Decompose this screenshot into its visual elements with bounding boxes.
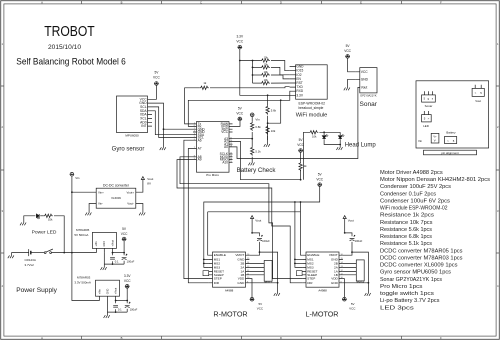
wire 8V down L [344, 219, 346, 233]
wire stack rail top [240, 60, 261, 62]
svg-text:5V: 5V [346, 44, 351, 48]
svg-text:V-: V- [434, 138, 437, 142]
wire R MS1 [204, 258, 209, 260]
LED D3 head lamp [338, 135, 344, 139]
svg-text:Battery: Battery [446, 131, 456, 135]
wire gyro VCC [152, 85, 156, 99]
svg-text:B: B [121, 0, 123, 4]
svg-text:E: E [360, 336, 362, 340]
Vin symbol battery check [250, 113, 255, 117]
wire cap to gnd rail [112, 261, 114, 264]
svg-text:Vout: Vout [255, 218, 261, 222]
svg-text:0.1: 0.1 [115, 259, 119, 263]
wire battery to switch [32, 252, 45, 254]
MOT1 wires [249, 263, 264, 274]
svg-text:MOT1: MOT1 [264, 280, 272, 284]
wire to ground [106, 312, 108, 315]
motor driver L-motor U3 A4988 box [306, 252, 339, 287]
wire L supply return [352, 252, 368, 293]
junction 3.3V line [267, 94, 269, 96]
svg-text:5.6k: 5.6k [271, 109, 277, 113]
sonar pin stubs [356, 72, 360, 80]
svg-text:Vin: Vin [255, 118, 260, 122]
wire lamp drive up [304, 132, 310, 179]
svg-text:Sonar: Sonar [360, 101, 378, 108]
wire Vin- to ground [89, 204, 96, 213]
junction 100uF top 3.3V [126, 300, 128, 302]
wire divider mid [251, 132, 253, 146]
svg-text:Condenser 100uF 25V 2pcs: Condenser 100uF 25V 2pcs [380, 184, 451, 190]
junction stack [252, 60, 254, 62]
svg-text:100uF: 100uF [355, 239, 363, 243]
Pro Micro U1 box [197, 122, 230, 173]
svg-text:3: 3 [2, 209, 4, 213]
wire [126, 309, 128, 312]
ground L motor [365, 293, 371, 296]
wire rail link [300, 202, 302, 212]
svg-text:Self Balancing Robot Model 6: Self Balancing Robot Model 6 [16, 57, 126, 67]
resistor 10k pull 4 [261, 81, 270, 84]
resistor 10k pull 3 [261, 73, 270, 76]
wire battery minus [12, 253, 29, 256]
parts list [380, 170, 490, 311]
sonar VCC symbol [345, 55, 350, 59]
wire EN to L ENABLE [301, 212, 303, 255]
wire 3.3V to ESP [240, 61, 290, 96]
wire L VDD down [343, 279, 345, 298]
svg-text:V+: V+ [433, 135, 437, 139]
svg-text:5: 5 [453, 139, 455, 143]
wire power LED left [24, 216, 36, 223]
svg-text:Vout: Vout [361, 85, 368, 89]
wire pull1 to IO15 [271, 61, 290, 71]
M78AR03 pin labels [98, 288, 117, 295]
svg-text:1: 1 [2, 42, 4, 46]
svg-text:10k: 10k [312, 135, 317, 139]
VCC symbol R VDD [250, 297, 255, 301]
wire sonar Vout to A0 [233, 87, 360, 158]
ground DCDC in [85, 213, 91, 216]
svg-text:A: A [41, 0, 43, 4]
svg-text:C: C [200, 0, 202, 4]
svg-text:10k: 10k [48, 218, 53, 222]
wire 5V rail [113, 252, 125, 254]
resistor 5.1k [251, 146, 254, 155]
svg-text:toggle switch 1pcs: toggle switch 1pcs [380, 291, 434, 297]
svg-text:INT: INT [141, 124, 146, 128]
junction rail crossover [300, 201, 302, 203]
pin alignment caption box [424, 150, 477, 155]
svg-text:5V: 5V [259, 302, 263, 306]
connector MOT1 box [264, 261, 272, 282]
svg-text:Battery Check: Battery Check [237, 167, 277, 174]
svg-text:+Vin: +Vin [95, 241, 98, 247]
svg-text:VCC: VCC [236, 111, 243, 115]
wire A8 to L-motor STEP [180, 157, 302, 279]
wire lamp rail [319, 131, 340, 133]
wire pull4 to RST [271, 82, 290, 84]
wire R VDD down [249, 279, 252, 298]
junction L MS2 [294, 263, 296, 265]
wire [253, 74, 261, 76]
Pro Micro pin stubs left [193, 124, 197, 160]
capacitor 100uF 25V R [257, 235, 263, 241]
wire SCL [152, 107, 193, 138]
wire AR05 Vout [112, 253, 114, 256]
wire EN to R ENABLE [207, 212, 210, 255]
RAW VCC symbol [237, 117, 242, 121]
svg-text:Vin+: Vin+ [98, 190, 104, 194]
junction LED1 [323, 131, 325, 133]
gyro VCC symbol [154, 82, 159, 86]
junction on Rx line [280, 99, 282, 101]
svg-text:2: 2 [2, 125, 4, 129]
wire 10k to ground [267, 136, 269, 144]
resistor 10k pull 1 [261, 59, 270, 62]
svg-text:100uF: 100uF [130, 308, 138, 312]
svg-text:Li-po Battery 3.7V 2pcs: Li-po Battery 3.7V 2pcs [380, 298, 440, 304]
svg-text:Condenser 100uF 6V 2pcs: Condenser 100uF 6V 2pcs [380, 199, 450, 205]
svg-text:DIR: DIR [307, 281, 313, 285]
battery CR123A symbol [29, 249, 31, 256]
svg-text:VCC: VCC [221, 130, 228, 134]
ground M78AR05 [101, 267, 107, 270]
sonar U-GP2Y0A21YK box [360, 68, 377, 93]
svg-text:DC-DC converter: DC-DC converter [103, 183, 130, 187]
svg-text:5V: 5V [238, 106, 243, 110]
M78AR03 pin stubs [100, 296, 116, 300]
wire Rx to ESP RXD [188, 91, 289, 126]
svg-text:VCC: VCC [153, 76, 160, 80]
svg-text:LED 3pcs: LED 3pcs [380, 305, 414, 311]
DCDC converter U-M78AR03 box [96, 280, 120, 296]
svg-text:VCC: VCC [236, 40, 243, 44]
svg-text:VCC: VCC [361, 70, 369, 74]
R-motor U2 pin stubs [209, 255, 250, 283]
junction stack R3 [252, 74, 254, 76]
svg-text:GND: GND [237, 281, 245, 285]
svg-text:DCDC converter M78AR03 1pcs: DCDC converter M78AR03 1pcs [380, 255, 463, 261]
M78AR05 pin labels [95, 240, 114, 247]
svg-text:Power Supply: Power Supply [16, 287, 57, 294]
svg-text:DCDC converter M78AR05 1pcs: DCDC converter M78AR05 1pcs [380, 248, 463, 254]
svg-text:+Vout: +Vout [115, 288, 118, 295]
svg-text:A0: A0 [224, 145, 228, 149]
svg-text:Resistance 5.6k 1pcs: Resistance 5.6k 1pcs [380, 227, 432, 233]
connector J-battery [445, 137, 457, 144]
junction gnd rail 3.3V [115, 311, 117, 313]
wire battery to AR03 Vin [72, 253, 100, 301]
svg-text:+Vout: +Vout [111, 240, 114, 247]
wire power LED to battery rail [54, 216, 64, 253]
resistor 1k pullup [299, 162, 302, 171]
junction L GND [368, 282, 370, 284]
motor driver R-motor U2 A4988 box [213, 252, 246, 287]
svg-text:5: 5 [424, 97, 426, 101]
junction lamp node [300, 179, 302, 181]
VCC symbol L VDD [342, 297, 347, 301]
svg-text:Vout: Vout [348, 218, 354, 222]
wire LED1 bottom [324, 139, 340, 144]
svg-text:>: > [447, 139, 449, 143]
svg-text:MPU6050: MPU6050 [125, 133, 139, 137]
wire A2 to lamp node [233, 141, 301, 179]
svg-text:8V: 8V [147, 182, 151, 186]
wire L GND [343, 282, 369, 284]
wire L MS1 [295, 258, 302, 260]
svg-text:5V 500mA: 5V 500mA [74, 233, 88, 237]
wire pull2 to IO2 [271, 67, 290, 74]
wire sonar GND [348, 79, 356, 87]
wire to ground [163, 129, 165, 147]
wire 3.3V rail [116, 300, 128, 302]
svg-text:VCC: VCC [121, 232, 128, 236]
ground divider2 [264, 144, 270, 147]
svg-text:0.1: 0.1 [118, 307, 122, 311]
wire [40, 215, 43, 217]
wire AR03 GND down [106, 301, 108, 313]
frame row numbers [2, 42, 499, 288]
resistor R-1k serial [200, 86, 209, 89]
svg-text:VCC: VCC [316, 177, 323, 181]
svg-text:VCC: VCC [257, 307, 264, 311]
wire Vout+ up [136, 180, 143, 193]
ground power LED [20, 223, 26, 226]
svg-text:GP2Y0A21YK: GP2Y0A21YK [360, 94, 377, 98]
wire 1k to VCC [300, 152, 302, 161]
svg-text:3: 3 [497, 209, 499, 213]
svg-text:2015/10/10: 2015/10/10 [48, 44, 81, 51]
svg-text:s: s [432, 98, 434, 101]
svg-text:Head Lump: Head Lump [345, 142, 377, 148]
wire [123, 253, 125, 256]
svg-text:GND: GND [103, 241, 106, 247]
Pro Micro pin labels right [220, 122, 229, 164]
connector J-vin [431, 133, 439, 143]
L-motor U3 pin labels [307, 253, 339, 285]
gyro sensor pin stubs [148, 99, 153, 126]
wire R MS2 [204, 262, 209, 264]
svg-text:>: > [475, 91, 477, 95]
LED D2 head lamp [322, 135, 328, 139]
svg-text:Sonar: Sonar [425, 104, 433, 108]
wire R cap to VMOT [249, 242, 259, 255]
svg-text:10k: 10k [271, 129, 276, 133]
junction 100uF top [123, 252, 125, 254]
MOT2 wires [343, 263, 356, 274]
ESP pin labels [296, 65, 304, 98]
ground R motor [274, 293, 280, 296]
junction 3.3V bus [239, 60, 241, 62]
wire [123, 261, 125, 264]
ground gyro [160, 147, 166, 150]
Vout 8V arrow R [251, 216, 254, 219]
resistor 10k head lamp [309, 131, 318, 134]
wire Vin vertical [71, 176, 73, 253]
junction power LED tap [63, 252, 65, 254]
resistor 10k power LED [44, 214, 53, 217]
Pro Micro pin numbers [194, 123, 233, 163]
svg-text:6.8k: 6.8k [255, 125, 261, 129]
junction L cap [344, 232, 346, 234]
Vin symbol power [70, 172, 75, 176]
svg-text:5V: 5V [351, 302, 355, 306]
svg-text:2: 2 [497, 125, 499, 129]
svg-text:3.3V 500mA: 3.3V 500mA [74, 280, 91, 284]
wire A9 to L-motor DIR [177, 160, 302, 283]
svg-text:5V: 5V [299, 138, 304, 142]
capacitor 100uF 6V (5V rail) [122, 254, 128, 260]
svg-text:3.3V: 3.3V [237, 35, 244, 39]
svg-text:GND: GND [106, 289, 109, 295]
svg-text:Resistance 6.8k 1pcs: Resistance 6.8k 1pcs [380, 234, 432, 240]
Pro Micro pin stubs right [229, 124, 233, 162]
ground M78AR03 [104, 315, 110, 318]
wire LED1 top [323, 132, 325, 135]
junction stack R2 [252, 67, 254, 69]
R-motor U2 pin numbers [247, 254, 250, 284]
svg-text:+Vin: +Vin [98, 289, 101, 295]
capacitor 100uF 6V (3.3V rail) [125, 302, 131, 308]
svg-text:CR123A: CR123A [25, 258, 36, 262]
capacitor 100uF 25V L [350, 235, 356, 241]
wire [253, 82, 261, 84]
Vout 8V arrow L [343, 216, 346, 219]
svg-text:TROBOT: TROBOT [44, 24, 95, 40]
svg-text:15: 15 [247, 258, 250, 260]
svg-text:R-MOTOR: R-MOTOR [213, 310, 247, 319]
ground DCDC out [139, 213, 145, 216]
wire RAW VCC [233, 121, 241, 127]
toggle switch S1 [44, 249, 53, 254]
svg-text:4: 4 [2, 284, 4, 288]
LED D1 power [36, 214, 39, 219]
wire tap to RXD line [268, 100, 281, 123]
wire AR05 GND down [103, 253, 105, 265]
svg-text:Vout: Vout [147, 177, 153, 181]
wire to ESP TXD [210, 87, 290, 88]
svg-text:A6: A6 [198, 138, 202, 142]
frame column letters top [41, 0, 442, 4]
resistor 5.6k [266, 105, 269, 114]
svg-text:5V: 5V [318, 172, 323, 176]
wire 5V to VCC symbol [123, 241, 125, 253]
wire divider2 mid [267, 116, 269, 140]
jumper R RESET-SLEEP [203, 271, 209, 276]
Vout 8V arrow [141, 177, 144, 180]
wire 1k bottom [300, 170, 302, 180]
svg-text:3.7Vx2: 3.7Vx2 [25, 263, 35, 267]
resistor 10k pull 2 [261, 66, 270, 69]
wire L cap to VMOT [343, 242, 352, 255]
svg-text:Gyro sensor MPU6050 1pcs: Gyro sensor MPU6050 1pcs [380, 270, 451, 276]
resistor 6.8k [251, 122, 254, 131]
wire L MS2 [295, 262, 302, 264]
svg-text:1k: 1k [304, 164, 308, 168]
wire Vin to divider [251, 117, 253, 122]
svg-text:A4988: A4988 [225, 289, 234, 293]
wire stack bus [252, 61, 254, 84]
svg-text:E: E [360, 0, 362, 4]
svg-text:A4988: A4988 [318, 289, 327, 293]
wire EN rail [208, 211, 301, 213]
XL6009 pin labels [98, 190, 134, 205]
wire A7 to R-motor DIR [188, 149, 208, 283]
L-motor U3 pin numbers [341, 254, 344, 284]
wire [253, 66, 261, 68]
resistor 10k divider [266, 125, 269, 134]
connector J-led [422, 115, 432, 122]
junction LED cathodes [339, 144, 341, 146]
svg-text:Vin: Vin [75, 176, 80, 180]
ground head lamp [336, 147, 342, 150]
svg-text:Vout-: Vout- [127, 202, 134, 206]
junction 3.3V out [115, 300, 117, 302]
svg-text:Pro Micro 1pcs: Pro Micro 1pcs [380, 284, 423, 290]
svg-text:WiFi module ESP-WROOM-02: WiFi module ESP-WROOM-02 [380, 206, 448, 212]
svg-text:Vin-: Vin- [98, 202, 103, 206]
junction gnd rail [112, 263, 114, 265]
svg-text:VCC: VCC [349, 307, 356, 311]
junction L MS rail [294, 201, 296, 203]
svg-text:Resistance 1k 2pcs: Resistance 1k 2pcs [380, 213, 434, 219]
wire to ground [103, 264, 105, 267]
svg-text:Vin: Vin [418, 139, 423, 143]
rail VCC symbol [317, 183, 322, 187]
sonar pin labels [361, 70, 369, 90]
Pro Micro pin labels left [198, 122, 206, 162]
wire Vout- to ground [136, 204, 143, 213]
svg-text:5: 5 [424, 117, 426, 121]
svg-text:A10: A10 [222, 160, 228, 164]
WiFi module U-ESP box [296, 65, 328, 99]
capacitor 0.1uF (5V) [110, 257, 115, 259]
wire 5.6k top [267, 95, 269, 105]
svg-text:XL6009: XL6009 [111, 196, 121, 200]
VCC symbol lamp pullup [298, 149, 303, 153]
ground sonar [344, 88, 350, 91]
connector MOT2 box [356, 260, 364, 281]
connector J-sonar [422, 95, 436, 102]
junction R GND [277, 282, 279, 284]
VCC 3.3V symbol [125, 285, 130, 289]
wire divider to ground [251, 157, 253, 163]
svg-text:3.3V: 3.3V [296, 93, 303, 97]
svg-text:5: 5 [480, 91, 482, 95]
svg-text:Vout+: Vout+ [127, 190, 135, 194]
wire 3.3V to VCC symbol [126, 288, 128, 300]
svg-text:L-MOTOR: L-MOTOR [305, 310, 338, 319]
svg-text:GND: GND [331, 281, 339, 285]
wire pull3 to EN [271, 75, 290, 79]
svg-text:GND: GND [361, 77, 369, 81]
junction R cap [251, 232, 253, 234]
junction divider tap A3 [251, 138, 253, 140]
junction divider2 tap [267, 122, 269, 124]
junction L VMOT node [351, 251, 353, 253]
svg-text:Power LED: Power LED [32, 230, 57, 236]
svg-text:C: C [200, 336, 202, 340]
svg-text:100uF: 100uF [127, 260, 135, 264]
svg-text:breakout_simple: breakout_simple [299, 106, 324, 110]
capacitor 0.1uF (3.3V) [113, 305, 118, 307]
svg-text:VCC: VCC [124, 279, 131, 283]
svg-text:5.1k: 5.1k [255, 150, 261, 154]
svg-text:3.3V: 3.3V [124, 274, 131, 278]
wire 5V rail to L MS3 [295, 202, 302, 267]
wire tap to A3 [233, 138, 253, 140]
svg-text:4: 4 [497, 284, 499, 288]
